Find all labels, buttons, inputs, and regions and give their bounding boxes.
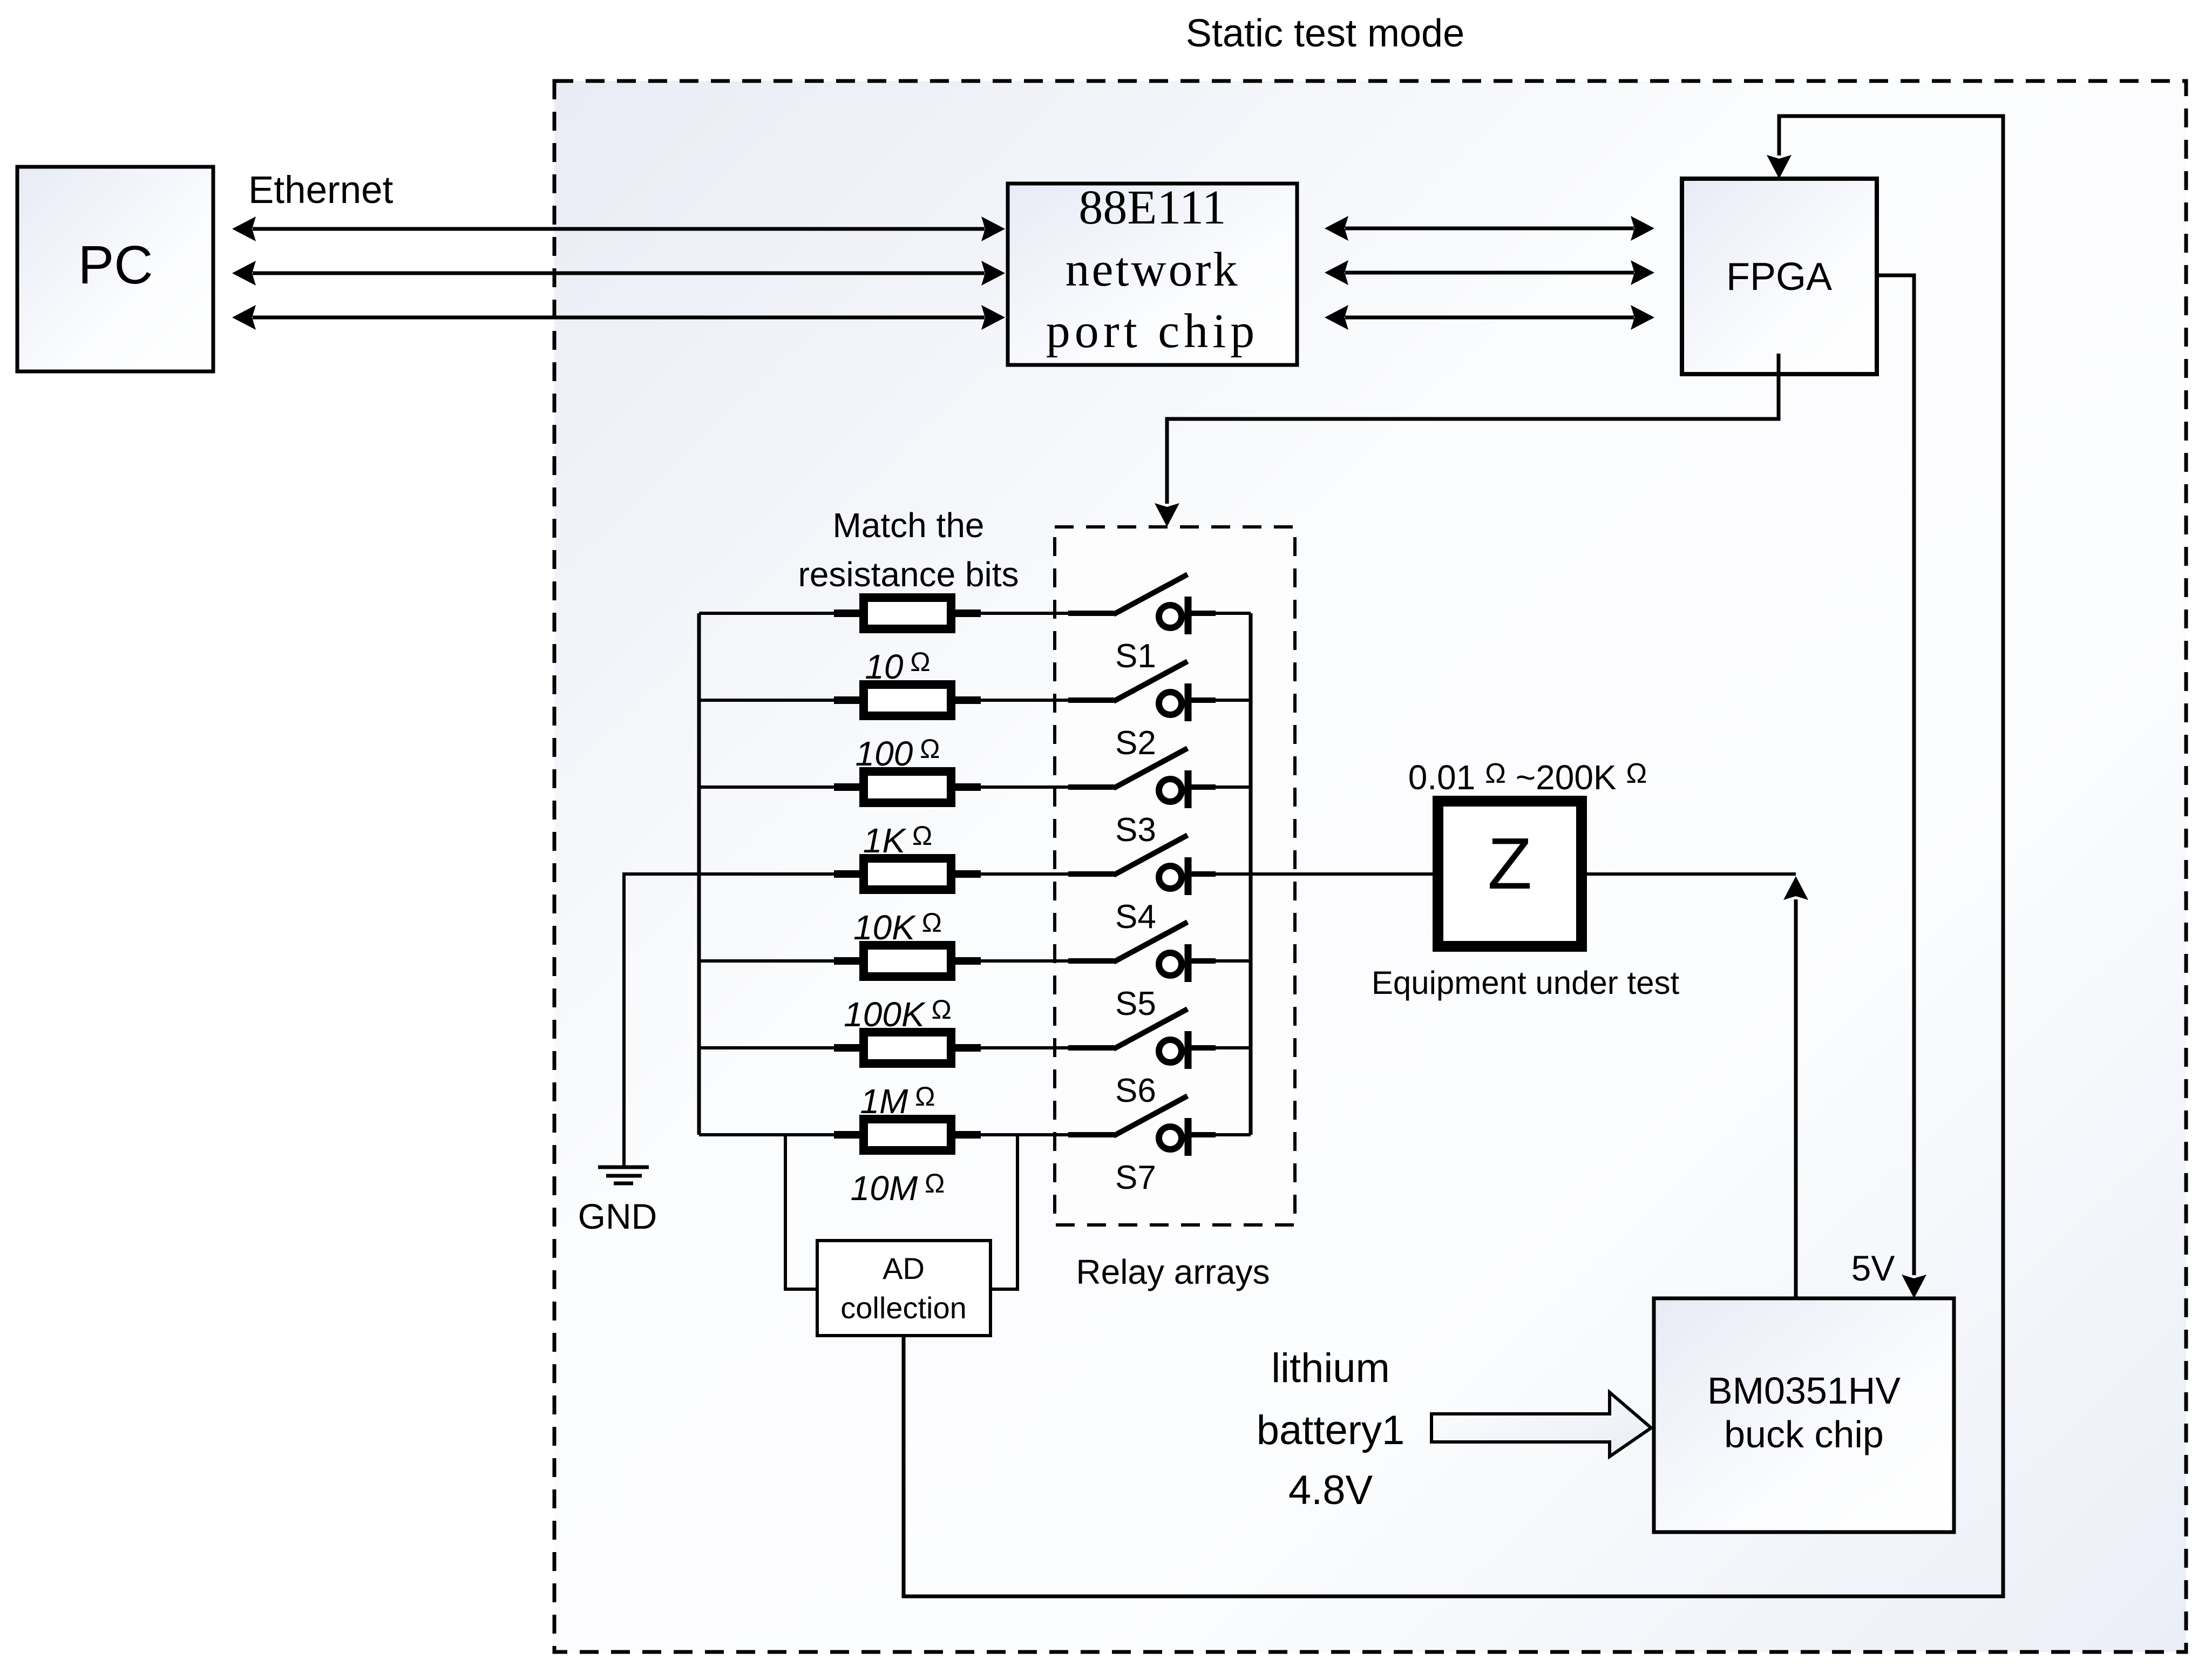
switch S4 (relay contact) [1068,835,1216,895]
wire: left bus to resistor R5 [699,959,838,963]
block U3: BM0351HV buck chip [1654,1298,1954,1532]
wire: switch S7 to right bus [1216,1133,1251,1136]
svg-text:S5: S5 [1115,985,1156,1022]
block arrow: battery feed into BM0351HV [1431,1392,1651,1457]
svg-text:FPGA: FPGA [1726,255,1832,299]
svg-text:S6: S6 [1115,1072,1156,1109]
outer dashed enclosure: Static test mode [554,81,2186,1652]
impedance Z (equipment under test) [1438,801,1582,946]
svg-text:S4: S4 [1115,898,1156,936]
wire: resistor R7 to switch S7 [977,1133,1070,1136]
svg-text:0.01 Ω ~200K Ω: 0.01 Ω ~200K Ω [1408,758,1647,797]
switch S6 (relay contact) [1068,1009,1216,1069]
wire: resistor R3 to switch S3 [977,785,1070,789]
wire: S4 node to Z left terminal [1251,872,1433,876]
svg-text:Relay arrays: Relay arrays [1076,1252,1270,1291]
wire: switch S1 to right bus [1216,612,1251,615]
wire: data bus arrow 3 (88E111 - FPGA, double-headed) [1325,305,1654,330]
resistor R1 (10 ohm) [834,598,981,629]
svg-text:4.8V: 4.8V [1288,1467,1373,1513]
resistor R4 (10K ohm) [834,858,981,890]
resistor R7 (10M ohm) [834,1119,981,1150]
wire: resistor R2 to switch S2 [977,699,1070,702]
wire: resistor R5 to switch S5 [977,959,1070,963]
wire: resistor R6 to switch S6 [977,1046,1070,1049]
wire: switch S2 to right bus [1216,699,1251,702]
svg-text:Match the: Match the [832,506,984,545]
svg-text:AD: AD [883,1251,925,1285]
wire: switch S6 to right bus [1216,1046,1251,1049]
svg-text:Static test mode: Static test mode [1186,12,1464,55]
wire: Ethernet bus arrow 1 (PC - 88E111, double-headed) [232,216,1005,241]
ground [598,1167,649,1183]
wire: switch S3 to right bus [1216,785,1251,789]
block U2: FPGA [1682,179,1877,374]
svg-text:GND: GND [578,1196,657,1236]
wire: left bus to resistor R6 [699,1046,838,1049]
svg-text:battery1: battery1 [1257,1407,1405,1453]
resistor R5 (100K ohm) [834,945,981,977]
switch S2 (relay contact) [1068,661,1216,721]
switch S5 (relay contact) [1068,922,1216,982]
wire: left bus to resistor R4 [699,872,838,876]
block U1: 88E111 network port chip [1008,181,1297,365]
svg-text:S1: S1 [1115,638,1156,675]
svg-text:network: network [1066,243,1240,296]
wire: Ethernet bus arrow 3 (PC - 88E111, double-headed) [232,305,1005,330]
wire: FPGA bottom to relay arrays control input [1155,354,1779,527]
wire: row 7 node to AD collection left input [785,1135,817,1289]
svg-text:88E111: 88E111 [1078,181,1226,234]
wire: BM0351HV output up to Z node (arrow up) [1783,876,1808,1298]
switch S7 (relay contact) [1068,1096,1216,1156]
svg-text:PC: PC [78,235,153,295]
switch S1 (relay contact) [1068,574,1216,634]
switch S3 (relay contact) [1068,748,1216,808]
wire: Ethernet bus arrow 2 (PC - 88E111, double-headed) [232,261,1005,286]
wire: AD collection output loop to FPGA top (net ADOUT) [904,116,2003,1596]
block PC [17,167,213,371]
svg-text:port chip: port chip [1046,304,1259,358]
wire: left bus to resistor R3 [699,785,838,789]
wire: resistor R1 to switch S1 [977,612,1070,615]
svg-text:collection: collection [840,1291,966,1325]
svg-text:5V: 5V [1851,1248,1895,1288]
svg-text:lithium: lithium [1271,1345,1390,1391]
svg-text:Z: Z [1488,823,1532,904]
svg-text:buck chip: buck chip [1724,1413,1884,1455]
wire: switch S4 to right bus [1216,872,1251,876]
wire: switch S5 to right bus [1216,959,1251,963]
svg-text:S2: S2 [1115,724,1156,762]
wire: left bus to resistor R7 [699,1133,838,1136]
wire: resistor R4 to switch S4 [977,872,1070,876]
wire: measurement node to ground [624,874,699,1166]
wire: left bus (resistor common node) [697,613,701,1135]
svg-text:resistance bits: resistance bits [798,555,1019,594]
relay arrays enclosure (dashed) [1055,527,1295,1225]
resistor R2 (100 ohm) [834,685,981,716]
svg-text:BM0351HV: BM0351HV [1707,1370,1901,1412]
svg-text:S7: S7 [1115,1159,1156,1196]
wire: data bus arrow 1 (88E111 - FPGA, double-headed) [1325,216,1654,241]
svg-text:Ethernet: Ethernet [248,169,393,212]
resistor R3 (1K ohm) [834,771,981,803]
wire: FPGA right side down to BM0351HV top (net 5V control) [1877,275,1926,1298]
wire: right bus (switch common node) [1249,613,1253,1135]
wire: left bus to resistor R2 [699,699,838,702]
wire: left bus to resistor R1 [699,612,838,615]
resistor R6 (1M ohm) [834,1032,981,1064]
svg-text:Equipment under test: Equipment under test [1372,965,1680,1001]
wire: row 7 node to AD collection right input [990,1135,1017,1289]
svg-text:S3: S3 [1115,811,1156,849]
block: AD collection [817,1241,990,1336]
wire: Z right terminal to supply node [1587,872,1796,876]
wire: data bus arrow 2 (88E111 - FPGA, double-headed) [1325,260,1654,285]
